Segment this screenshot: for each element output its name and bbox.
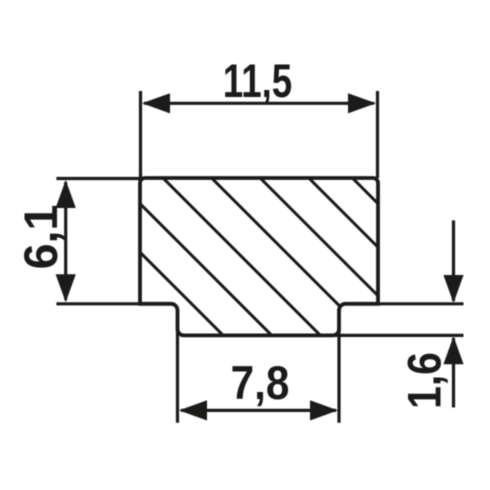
dimension 7,8 : left arrowhead — [179, 400, 207, 420]
hatch line 7 — [320, 146, 480, 306]
dimension 11,5 : right arrowhead — [348, 93, 376, 113]
svg-text:11,5: 11,5 — [223, 55, 292, 107]
dimension 1,6 : upper dimension line — [452, 220, 455, 301]
profile outline — [140, 178, 378, 335]
dimension 1,6 : lower dimension line — [452, 338, 455, 408]
dimension 1,6 : upper arrowhead (points down) — [443, 275, 463, 303]
dimension 6,1 : top extension line — [56, 177, 140, 180]
hatch line 4 — [170, 136, 450, 416]
svg-text:7,8: 7,8 — [231, 358, 290, 410]
svg-text:6,1: 6,1 — [15, 205, 67, 270]
hatch line 5 — [220, 138, 460, 378]
dimension 7,8 : dimension line — [181, 409, 336, 412]
dimension 1,6 : lower arrowhead (points up) — [443, 336, 463, 364]
dimension 6,1 : top arrowhead — [56, 180, 76, 208]
dimension 7,8 : left extension line — [176, 324, 179, 423]
dimension 6,1 : bottom arrowhead — [56, 274, 76, 302]
dimension 11,5 : left extension line — [139, 91, 142, 178]
dimension 1,6 : bottom extension line — [330, 334, 464, 337]
dimension 6,1 : bottom extension line — [56, 302, 171, 305]
hatch line 2 — [100, 164, 380, 444]
dimension 7,8 : right arrowhead — [310, 400, 338, 420]
dimension 1,6 : top extension line — [346, 302, 464, 305]
hatch line 3 — [120, 135, 420, 435]
dimension 6,1 : dimension line — [64, 182, 67, 300]
dimension 7,8 : right extension line — [337, 324, 340, 423]
hatch lines (45 deg, clipped to profile) — [100, 135, 480, 452]
hatch line 1 — [100, 212, 340, 452]
svg-text:1,6: 1,6 — [399, 352, 451, 409]
dimension 11,5 : left arrowhead — [142, 93, 170, 113]
hatch line 6 — [270, 139, 470, 339]
dimension 11,5 : dimension line — [144, 102, 374, 105]
dimension 11,5 : right extension line — [376, 91, 379, 178]
